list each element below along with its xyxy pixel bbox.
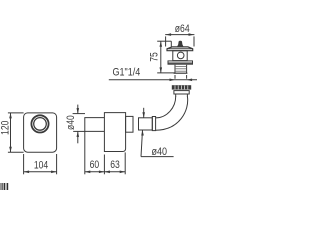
svg-text:60: 60 (90, 159, 100, 171)
svg-text:ø40: ø40 (65, 115, 77, 130)
svg-text:ø40: ø40 (151, 146, 167, 158)
svg-text:120: 120 (0, 120, 12, 135)
svg-text:63: 63 (110, 159, 120, 171)
svg-text:G1"1/4: G1"1/4 (113, 67, 141, 79)
svg-text:104: 104 (34, 159, 49, 171)
svg-text:75: 75 (149, 52, 161, 62)
svg-text:ø64: ø64 (175, 23, 190, 35)
